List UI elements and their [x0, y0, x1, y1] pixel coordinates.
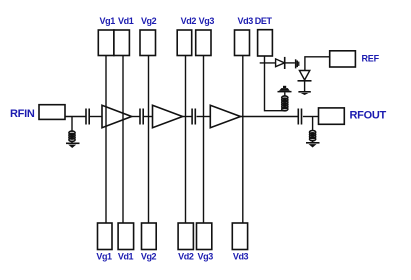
svg-text:Vg2: Vg2 [141, 251, 157, 261]
svg-text:Vg2: Vg2 [141, 16, 157, 26]
wire C4 to RFOUT pad [303, 116, 319, 118]
bottom pad Vd2 [178, 223, 193, 250]
wire Vd3 bias line [242, 56, 244, 224]
capacitor C4 [298, 109, 301, 125]
wire L2 to ground [312, 140, 314, 142]
top pad Vg3 [196, 30, 211, 56]
wire amp3 to C4 [241, 116, 298, 118]
wire D1 to cap plate [285, 62, 295, 64]
bottom pad Vd1 [118, 223, 134, 250]
inductor L3 (detector choke) [282, 96, 288, 111]
wire DET vertical [265, 56, 286, 111]
wire C3 to amp3 [197, 116, 211, 118]
wire D2 to ground [304, 81, 306, 91]
diode D1 [276, 59, 285, 67]
capacitor C3 [192, 109, 195, 125]
svg-text:Vg3: Vg3 [198, 251, 214, 261]
wire node to REF [305, 57, 330, 70]
REF pad [330, 51, 356, 67]
top pad Vd2 [177, 30, 192, 56]
wire Vg3 bias line [203, 56, 205, 224]
wire input shunt [71, 117, 73, 132]
diode D2 (vertical) [299, 71, 309, 81]
op-amp stage A2 [153, 105, 183, 127]
top pad Vd3 [235, 30, 250, 56]
top pad Vg2 [140, 30, 156, 56]
ground (under D2) [298, 91, 310, 93]
svg-text:Vd2: Vd2 [178, 251, 194, 261]
svg-text:Vg1: Vg1 [100, 16, 116, 26]
svg-text:DET: DET [255, 16, 273, 26]
bottom pad Vg1 [98, 223, 113, 250]
capacitor C2 [140, 109, 143, 125]
svg-text:RFOUT: RFOUT [350, 110, 387, 122]
inductor L1 (input shunt coil) [69, 131, 75, 141]
wire C2 to amp2 [144, 116, 153, 118]
op-amp stage A3 [210, 105, 240, 127]
wire DET to diode D1 [260, 62, 276, 64]
wire L3 top stub [284, 92, 286, 96]
ground (output shunt) [306, 142, 320, 144]
capacitor (bypass, horizontal dome) [295, 59, 300, 68]
RFOUT pad [319, 108, 345, 124]
svg-text:RFIN: RFIN [10, 108, 35, 120]
svg-text:REF: REF [362, 53, 380, 63]
top pad Vd1 [114, 30, 129, 56]
bottom pad Vd3 [232, 223, 247, 250]
wire Vd2 bias line [185, 56, 187, 224]
top pad Vg1 [98, 30, 114, 56]
svg-text:Vd1: Vd1 [118, 251, 134, 261]
bottom pad Vg3 [197, 223, 212, 250]
capacitor (bypass dome on L3) [278, 86, 292, 93]
wire Vg1 bias line [105, 56, 107, 224]
svg-text:Vg3: Vg3 [199, 16, 215, 26]
wire L1 to ground [71, 141, 73, 143]
svg-text:Vd1: Vd1 [118, 16, 134, 26]
RFIN pad [39, 105, 65, 120]
svg-text:Vg1: Vg1 [96, 251, 112, 261]
wire Vg2 bias line [148, 56, 150, 224]
ground (input shunt) [66, 142, 80, 144]
wire amp2 to C3 [183, 116, 192, 118]
bottom pad Vg2 [142, 223, 157, 250]
wire amp1 to C2 [132, 116, 140, 118]
svg-text:Vd2: Vd2 [181, 16, 197, 26]
top pad DET [258, 30, 273, 56]
inductor L2 (output shunt coil) [310, 131, 316, 141]
wire C1 to amp1 [90, 116, 102, 118]
wire RFIN pad to C1 [65, 116, 86, 118]
svg-text:Vd3: Vd3 [238, 16, 254, 26]
capacitor C1 [86, 109, 89, 125]
op-amp stage A1 [102, 105, 132, 127]
wire output shunt [312, 117, 314, 131]
svg-text:Vd3: Vd3 [233, 251, 249, 261]
wire Vd1 bias line [122, 56, 124, 224]
